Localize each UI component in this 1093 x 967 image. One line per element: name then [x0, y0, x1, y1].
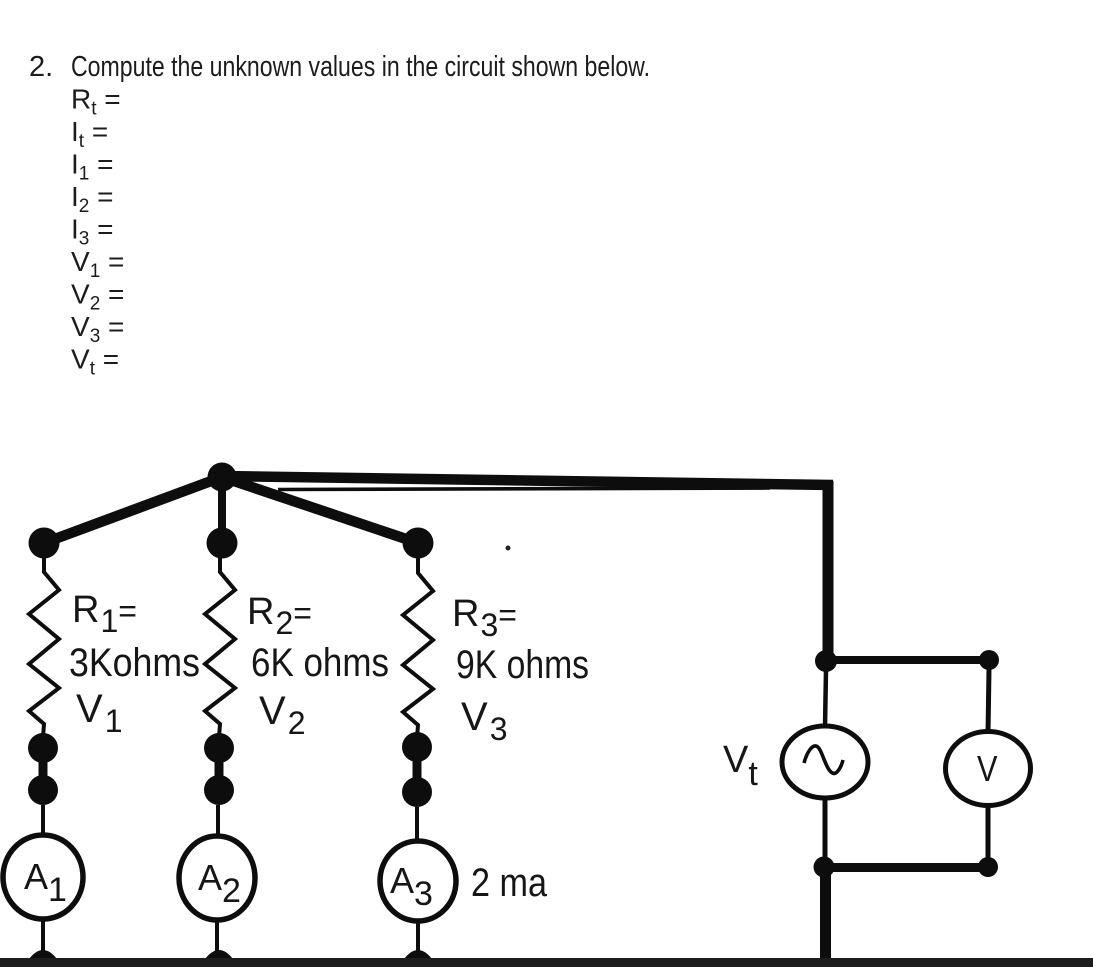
- label V3 =: [71, 311, 124, 347]
- wire A3 to bottom bus: [404, 921, 432, 959]
- label It =: [71, 116, 108, 152]
- wire diagonal node A to R1 top: [44, 477, 222, 543]
- wire dots to ammeter A3: [415, 807, 419, 841]
- wire top bus from node A to right corner: [222, 476, 833, 490]
- junction double dot R1: [28, 733, 58, 805]
- wire A2 to bottom bus: [205, 920, 233, 959]
- svg-text:It =: It =: [71, 116, 108, 152]
- wire R1 to dots: [41, 737, 45, 748]
- svg-text:I1 =: I1 =: [71, 149, 114, 185]
- wire bottom between junctions: [824, 863, 988, 872]
- label V2 =: [71, 279, 124, 315]
- svg-text:Vt =: Vt =: [71, 344, 119, 380]
- label V2: [259, 689, 305, 741]
- svg-text:6K ohms: 6K ohms: [251, 641, 389, 685]
- svg-text:2 ma: 2 ma: [471, 861, 548, 905]
- wire junction to source Vt: [825, 670, 826, 727]
- label Vt: [723, 739, 758, 793]
- wire R3 to dots: [415, 738, 419, 747]
- svg-text:I3 =: I3 =: [71, 214, 114, 250]
- label R3=: [452, 593, 517, 643]
- label 2 ma: [471, 861, 548, 905]
- ammeter A1: [3, 835, 83, 919]
- source Vt: [782, 726, 868, 798]
- label I1 =: [71, 149, 114, 185]
- junction double dot R2: [204, 733, 234, 805]
- ammeter A3: [380, 841, 456, 921]
- resistor R2: [205, 557, 235, 737]
- label R2=: [247, 591, 312, 641]
- label 6K ohms: [251, 641, 389, 685]
- node R2 top junction: [207, 528, 238, 559]
- resistor R1: [29, 557, 59, 737]
- wire dots to ammeter A1: [41, 805, 45, 836]
- resistor R3: [403, 557, 433, 738]
- label V3: [461, 695, 507, 747]
- wire stub node A to R2 top: [218, 477, 226, 543]
- wire source Vt to bottom junction: [823, 798, 828, 867]
- wire A1 to bottom bus: [29, 919, 57, 959]
- wire bottom bus: [0, 958, 1093, 967]
- label I2 =: [71, 181, 114, 217]
- wire voltmeter to bottom junction: [986, 803, 991, 867]
- svg-text:2.: 2.: [29, 51, 53, 83]
- node source bottom junction: [814, 857, 835, 878]
- wire source top to voltmeter top: [826, 656, 989, 664]
- node A top junction: [208, 463, 237, 492]
- wire source branch to bottom bus: [820, 867, 831, 967]
- label Vt =: [71, 344, 119, 380]
- wire R2 to dots: [217, 737, 221, 748]
- wire dots to ammeter A2: [216, 805, 220, 837]
- label Rt =: [71, 84, 121, 120]
- label 9K ohms: [456, 643, 589, 687]
- svg-text:V: V: [977, 748, 998, 789]
- label 3K ohms: [69, 641, 200, 685]
- node voltmeter top junction: [979, 650, 999, 670]
- problem title: [29, 51, 650, 83]
- label R1=: [72, 589, 137, 639]
- node R3 top junction: [403, 528, 434, 559]
- voltmeter V: [946, 732, 1031, 806]
- label I3 =: [71, 214, 114, 250]
- wire junction to voltmeter V: [988, 669, 989, 734]
- ammeter A2: [179, 836, 255, 920]
- node voltmeter bottom junction: [978, 857, 998, 877]
- speck artifact: [506, 546, 511, 551]
- svg-text:3Kohms: 3Kohms: [69, 641, 200, 685]
- svg-text:Compute the unknown values in: Compute the unknown values in the circui…: [71, 51, 650, 83]
- svg-text:Rt =: Rt =: [71, 84, 121, 120]
- node R1 top junction: [29, 528, 60, 559]
- junction double dot R3: [402, 732, 432, 807]
- svg-text:9K ohms: 9K ohms: [456, 643, 589, 687]
- label V1: [76, 687, 122, 739]
- wire right vertical drop: [823, 481, 834, 661]
- wire diagonal node A to R3 top: [222, 477, 418, 543]
- label V1 =: [71, 246, 124, 282]
- svg-text:I2 =: I2 =: [71, 181, 114, 217]
- node source top junction: [815, 650, 837, 672]
